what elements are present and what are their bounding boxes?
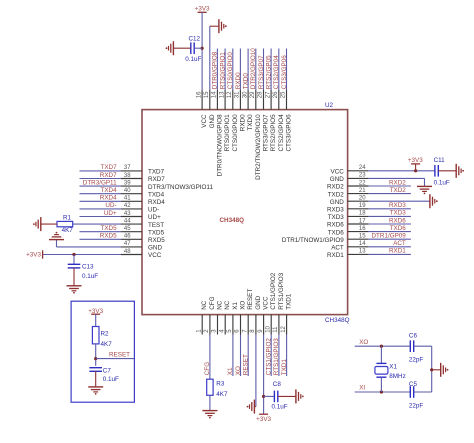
wire net XO (355, 339, 410, 346)
ground (below R3) (202, 411, 217, 416)
svg-text:38: 38 (124, 173, 131, 179)
svg-text:X1: X1 (227, 367, 234, 375)
svg-text:TXD5: TXD5 (100, 225, 117, 232)
svg-text:CH348Q: CH348Q (220, 217, 245, 224)
svg-text:8MHz: 8MHz (389, 373, 405, 380)
svg-text:VCC: VCC (148, 252, 162, 259)
ground (right of C8) (295, 389, 297, 403)
svg-text:0.1uF: 0.1uF (272, 404, 288, 411)
svg-text:NC: NC (217, 300, 224, 310)
svg-text:CTS0/GPIO0: CTS0/GPIO0 (227, 52, 234, 90)
svg-text:4K7: 4K7 (216, 391, 228, 398)
svg-text:15: 15 (204, 91, 210, 98)
wire net DTR1/GP09 (pin 15) (369, 233, 411, 240)
wire net CTS1/GPIO2 (bottom pin 10) (266, 335, 273, 377)
svg-text:U2: U2 (325, 102, 334, 109)
pin 21 TXD2 (right) (328, 188, 369, 198)
svg-text:UD-: UD- (105, 202, 116, 209)
wire RESET net (96, 358, 135, 360)
svg-text:DTR0/GPIO8: DTR0/GPIO8 (212, 51, 219, 89)
power +3V3 (left) (26, 250, 42, 258)
ground (left-facing, bottom) (253, 400, 255, 414)
svg-text:DTR1/TNOW1/GPIO9: DTR1/TNOW1/GPIO9 (282, 237, 344, 244)
svg-text:6: 6 (235, 329, 241, 333)
pin 13 RXD1 (right) (327, 249, 369, 259)
svg-text:UD+: UD+ (148, 214, 161, 221)
svg-text:+3V3: +3V3 (26, 252, 41, 259)
svg-text:10: 10 (265, 325, 271, 332)
capacitor C5 22pF (409, 381, 424, 410)
wire net RXD1 (pin 13) (369, 248, 411, 255)
svg-text:TXD2: TXD2 (328, 191, 345, 198)
svg-text:0.1uF: 0.1uF (82, 273, 98, 280)
wire net RXD3 (pin 19) (369, 202, 411, 209)
svg-text:40: 40 (124, 188, 131, 194)
wire R3 to ground (209, 395, 211, 410)
svg-text:39: 39 (124, 180, 131, 186)
svg-text:X1: X1 (389, 364, 397, 371)
svg-text:13: 13 (219, 91, 225, 98)
svg-text:TXD2: TXD2 (390, 187, 407, 194)
wire net TXD2 (pin 21) (369, 187, 411, 194)
svg-text:XI: XI (359, 385, 365, 392)
pin 22 RXD2 (right) (327, 180, 369, 190)
ground (right of crystal rail) (440, 363, 442, 377)
wire net XI (355, 385, 410, 392)
svg-text:TXD1: TXD1 (286, 293, 293, 310)
wire net XO (bottom pin 6) (235, 335, 242, 377)
svg-text:CFG: CFG (204, 362, 211, 375)
wire net DTR2/GPIO10 (pin 29) (250, 48, 257, 90)
svg-text:25: 25 (281, 91, 287, 98)
wire net RTS0/GPIO1 (pin 13) (219, 49, 226, 91)
power +3V3 (bottom) (256, 414, 271, 423)
pin 26 CTS2/GPIO4 (top) (273, 90, 285, 151)
svg-text:TXD1: TXD1 (281, 359, 288, 376)
junction C12 node (201, 47, 204, 50)
wire right rail (431, 346, 433, 392)
svg-text:19: 19 (359, 203, 366, 209)
svg-text:37: 37 (124, 165, 131, 171)
capacitor C12 (185, 36, 201, 63)
svg-text:R3: R3 (216, 381, 225, 388)
wire C13 to ground (73, 268, 75, 286)
capacitor C6 22pF (409, 333, 424, 364)
svg-text:RXD6: RXD6 (389, 217, 406, 224)
pin 12 TXD1 (bottom) (281, 293, 293, 334)
ground (below C13) (67, 286, 82, 291)
svg-text:48: 48 (124, 249, 131, 255)
pin 48 VCC (left) (121, 249, 162, 259)
svg-text:DTR0/TNOW0/GPIO8: DTR0/TNOW0/GPIO8 (216, 114, 223, 176)
svg-text:UD+: UD+ (104, 210, 117, 217)
wire C12 to ground (174, 47, 191, 49)
wire net TXD5 (pin 45) (80, 225, 122, 232)
svg-text:14: 14 (212, 91, 218, 98)
svg-text:DTR3/GP11: DTR3/GP11 (83, 179, 117, 186)
pin 31 RXD0 (top) (235, 90, 247, 131)
svg-text:1: 1 (196, 329, 202, 333)
svg-text:23: 23 (359, 173, 366, 179)
pin 47 GND (left) (121, 241, 162, 251)
wire net TXD0 (pin 30) (242, 49, 249, 91)
capacitor C11 0.1uF (434, 157, 450, 186)
svg-text:14: 14 (359, 241, 366, 247)
svg-text:TXD6: TXD6 (328, 229, 345, 236)
wire net RXD2 (pin 22) (369, 179, 411, 186)
wire junction to C13 (73, 255, 75, 265)
pin 41 RXD4 (left) (121, 196, 165, 206)
pin 45 TXD5 (left) (121, 226, 165, 236)
pin 27 RTS2/GPIO5 (top) (265, 90, 277, 151)
svg-text:ACT: ACT (331, 245, 344, 252)
pin 20 GND (right) (330, 196, 369, 206)
svg-text:TXD3: TXD3 (390, 210, 407, 217)
svg-text:GND: GND (209, 114, 216, 128)
pin 11 RTS1/GPIO3 (bottom) (273, 272, 285, 334)
svg-text:16: 16 (196, 91, 202, 98)
wire pin20 GND (369, 200, 430, 202)
svg-text:RXD0: RXD0 (239, 114, 246, 131)
svg-text:RESET: RESET (247, 289, 254, 310)
svg-text:4K7: 4K7 (101, 341, 113, 348)
svg-text:UD-: UD- (148, 207, 159, 214)
svg-text:TXD0: TXD0 (242, 73, 249, 90)
pin 43 UD+ (left) (121, 211, 161, 221)
capacitor C13 0.1uF (68, 263, 99, 280)
svg-text:RXD3: RXD3 (327, 207, 344, 214)
resistor R2 4K7 (92, 327, 112, 349)
svg-text:GND: GND (255, 295, 262, 309)
svg-text:CTS2/GPIO4: CTS2/GPIO4 (278, 114, 285, 152)
pin 14 ACT (right) (331, 241, 369, 251)
svg-text:42: 42 (124, 203, 131, 209)
svg-text:RXD4: RXD4 (148, 199, 165, 206)
ground (below pin23 wire) (417, 186, 432, 191)
svg-text:CTS3/GP06: CTS3/GP06 (281, 55, 288, 89)
pin 3 NC (bottom) (212, 300, 224, 334)
svg-text:TXD5: TXD5 (148, 229, 165, 236)
svg-text:TXD3: TXD3 (328, 214, 345, 221)
crystal X1 8MHz (375, 363, 406, 380)
svg-text:RXD7: RXD7 (100, 172, 117, 179)
wire pin24 VCC to C11 (369, 170, 435, 172)
svg-text:RXD2: RXD2 (389, 179, 406, 186)
svg-text:22pF: 22pF (409, 403, 424, 410)
svg-text:DTR2/TNOW2/GPIO10: DTR2/TNOW2/GPIO10 (255, 114, 262, 180)
svg-text:DTR2/GPIO10: DTR2/GPIO10 (250, 48, 257, 89)
pin 46 RXD5 (left) (121, 234, 165, 244)
wire net RXD0 (pin 31) (235, 49, 242, 91)
svg-text:CH348Q: CH348Q (325, 317, 350, 324)
svg-text:RTS0/GPIO1: RTS0/GPIO1 (224, 114, 231, 151)
svg-text:RXD0: RXD0 (235, 72, 242, 89)
svg-text:0.1uF: 0.1uF (103, 376, 119, 383)
svg-text:0.1uF: 0.1uF (434, 179, 450, 186)
svg-text:44: 44 (124, 218, 131, 224)
svg-text:NC: NC (224, 300, 231, 310)
wire net RTS1/GPIO3 (bottom pin 11) (273, 335, 280, 377)
svg-text:16: 16 (359, 226, 366, 232)
ground (right of C11) (455, 164, 457, 178)
svg-text:ACT: ACT (393, 240, 406, 247)
capacitor C8 0.1uF (272, 381, 288, 411)
wire C12 to junction (194, 47, 202, 49)
svg-text:R2: R2 (101, 331, 110, 338)
svg-text:C5: C5 (409, 381, 418, 388)
pin 15 DTR1/TNOW1/GPIO9 (right) (282, 234, 369, 244)
svg-text:4K7: 4K7 (62, 227, 74, 234)
junction +3V3 node (right) (414, 169, 417, 172)
pin 44 TEST (left) (121, 218, 164, 228)
junction C8 node (262, 395, 265, 398)
svg-text:C7: C7 (103, 367, 112, 374)
pin 13 RTS0/GPIO1 (top) (219, 90, 231, 151)
svg-text:RXD3: RXD3 (389, 202, 406, 209)
svg-text:9: 9 (258, 329, 264, 333)
svg-text:22pF: 22pF (409, 357, 424, 364)
ground (top, right-facing) (218, 19, 220, 33)
wire net RXD7 (pin 38) (80, 172, 122, 179)
svg-text:GND: GND (148, 245, 162, 252)
wire net RTS3/GP07 (pin 28) (258, 49, 265, 91)
junction XI/crystal (380, 390, 383, 393)
pin 28 RTS3/GPIO7 (top) (258, 90, 270, 151)
pin 16 VCC (top) (196, 90, 208, 128)
pin 18 TXD3 (right) (328, 211, 369, 221)
wire C5 to rail (414, 391, 432, 393)
svg-text:TXD0: TXD0 (247, 114, 254, 131)
svg-text:47: 47 (124, 241, 131, 247)
svg-text:RTS1/GPIO3: RTS1/GPIO3 (278, 272, 285, 309)
svg-text:C13: C13 (82, 263, 94, 270)
svg-text:RESET: RESET (243, 354, 250, 375)
pin 2 CFG (bottom) (204, 296, 216, 334)
pin 12 CTS0/GPIO0 (top) (227, 90, 239, 151)
wire net ACT (pin 14) (369, 240, 411, 247)
junction rail/ground (430, 368, 433, 371)
pin 42 UD- (left) (121, 203, 159, 213)
svg-text:7: 7 (242, 329, 248, 333)
wire pin44 TEST to R1 (73, 223, 121, 225)
svg-text:31: 31 (235, 91, 241, 98)
wire net TXD4 (pin 40) (80, 187, 122, 194)
wire net X1 (bottom pin 5) (227, 335, 234, 377)
pin 6 XO (bottom) (235, 301, 247, 335)
pin 4 NC (bottom) (219, 300, 231, 334)
svg-text:2: 2 (204, 329, 210, 333)
wire net RXD4 (pin 41) (80, 195, 122, 202)
power +3V3 (RESET box) (88, 308, 103, 315)
wire C7 to ground (95, 371, 97, 386)
svg-text:GND: GND (330, 176, 344, 183)
svg-text:17: 17 (359, 218, 366, 224)
wire +3V3 to pin16 (201, 12, 203, 90)
wire net CTS0/GPIO0 (pin 12) (227, 49, 234, 91)
svg-text:RXD6: RXD6 (327, 222, 344, 229)
wire net TXD3 (pin 18) (369, 210, 411, 217)
svg-text:29: 29 (250, 91, 256, 98)
svg-text:NC: NC (201, 300, 208, 310)
wire net RXD6 (pin 17) (369, 217, 411, 224)
svg-text:C11: C11 (434, 157, 446, 164)
wire net TXD6 (pin 16) (369, 225, 411, 232)
svg-text:15: 15 (359, 234, 366, 240)
svg-text:0.1uF: 0.1uF (185, 56, 201, 63)
ground (RESET box) (88, 387, 103, 392)
wire R1 to ground (41, 223, 57, 225)
wire pin15 GND up (210, 26, 219, 90)
svg-text:TXD6: TXD6 (390, 225, 407, 232)
svg-text:CTS1/GPIO2: CTS1/GPIO2 (270, 272, 277, 310)
pin 38 RXD7 (left) (121, 173, 165, 183)
svg-text:27: 27 (265, 91, 271, 98)
svg-text:GND: GND (330, 199, 344, 206)
wire pin8 GND down (255, 335, 256, 407)
svg-text:C8: C8 (273, 381, 282, 388)
pin 15 GND (top) (204, 90, 216, 128)
pin 37 TXD7 (left) (121, 165, 165, 175)
wire C11 to ground (438, 170, 456, 172)
wire net RXD5 (pin 46) (80, 233, 122, 240)
svg-text:22: 22 (359, 180, 366, 186)
capacitor C7 0.1uF (89, 367, 119, 383)
svg-text:24: 24 (359, 165, 366, 171)
IC U2 CH348Q body (142, 110, 348, 315)
wire C6 to rail (414, 345, 432, 347)
junction XO/crystal (380, 345, 383, 348)
svg-text:8: 8 (250, 329, 256, 333)
pin 29 DTR2/TNOW2/GPIO10 (top) (250, 90, 262, 180)
svg-text:VCC: VCC (331, 169, 345, 176)
pin 24 VCC (right) (331, 165, 369, 175)
ground (inverted, above pin47 wire) (49, 239, 64, 241)
svg-text:TXD7: TXD7 (148, 169, 165, 176)
svg-text:21: 21 (359, 188, 366, 194)
svg-text:XO: XO (240, 301, 247, 310)
pin 9 VCC (bottom) (258, 296, 270, 334)
svg-text:41: 41 (124, 196, 131, 202)
svg-text:X1: X1 (232, 302, 239, 310)
svg-text:12: 12 (227, 91, 233, 98)
svg-text:RXD4: RXD4 (100, 195, 117, 202)
svg-text:C12: C12 (189, 36, 201, 43)
wire C8 to ground (278, 395, 296, 397)
svg-text:CTS2/GP04: CTS2/GP04 (273, 55, 280, 89)
wire net RTS2/GP05 (pin 27) (265, 49, 272, 91)
pin 25 CTS3/GPIO6 (top) (281, 90, 293, 151)
svg-text:11: 11 (273, 326, 279, 333)
wire net DTR3/GP11 (pin 39) (80, 179, 122, 186)
svg-text:RTS3/GPIO7: RTS3/GPIO7 (263, 114, 270, 151)
svg-text:26: 26 (273, 91, 279, 98)
svg-text:+3V3: +3V3 (408, 157, 423, 164)
wire pin47 GND (57, 240, 122, 247)
svg-text:CTS3/GPIO6: CTS3/GPIO6 (286, 114, 293, 152)
wire net TXD1 (bottom pin 12) (281, 335, 288, 377)
resistor R1 4K7 (57, 214, 73, 234)
svg-text:13: 13 (359, 249, 366, 255)
svg-text:XO: XO (359, 339, 368, 346)
wire net CTS3/GP06 (pin 25) (281, 49, 288, 91)
pin 16 TXD6 (right) (328, 226, 369, 236)
svg-text:DTR3/TNOW3/GPIO11: DTR3/TNOW3/GPIO11 (148, 184, 213, 191)
svg-text:TXD4: TXD4 (148, 191, 165, 198)
svg-text:XO: XO (235, 366, 242, 375)
svg-text:VCC: VCC (263, 296, 270, 310)
svg-text:RESET: RESET (109, 352, 130, 359)
svg-text:RXD5: RXD5 (100, 233, 117, 240)
ground (left of R1) (40, 217, 42, 231)
wire net UD- (pin 42) (80, 202, 122, 209)
svg-text:CFG: CFG (209, 296, 216, 309)
wire net UD+ (pin 43) (80, 210, 122, 217)
RESET sub-circuit enclosure box (71, 301, 134, 402)
svg-text:C6: C6 (409, 333, 418, 340)
ground (right-facing, pin20) (429, 194, 431, 208)
wire crystal to XI (380, 377, 382, 392)
svg-text:VCC: VCC (201, 114, 208, 128)
power +3V3 (right) (408, 157, 423, 171)
wire net CTS2/GP04 (pin 26) (273, 49, 280, 91)
wire net DTR0/GPIO8 (pin 14) (212, 49, 219, 91)
wire net RESET (bottom pin 7) (243, 335, 250, 377)
wire rail to ground (432, 369, 441, 371)
svg-text:43: 43 (124, 211, 131, 217)
resistor R3 4K7 (207, 379, 228, 398)
svg-text:TXD7: TXD7 (100, 164, 117, 171)
svg-text:CTS0/GPIO0: CTS0/GPIO0 (232, 114, 239, 152)
pin 1 NC (bottom) (196, 300, 208, 334)
pin 19 RXD3 (right) (327, 203, 369, 213)
pin 30 TXD0 (top) (242, 90, 254, 131)
svg-text:+3V3: +3V3 (195, 6, 210, 13)
pin 39 DTR3/TNOW3/GPIO11 (left) (121, 180, 213, 190)
svg-text:RTS2/GP05: RTS2/GP05 (265, 55, 272, 89)
wire pin9 VCC down (263, 335, 265, 415)
pin 23 GND (right) (330, 173, 369, 183)
wire +3V3 to R2 (95, 314, 97, 326)
power +3V3 (top) (195, 6, 210, 13)
wire net TXD7 (pin 37) (80, 164, 122, 171)
svg-text:18: 18 (359, 211, 366, 217)
pin 5 X1 (bottom) (227, 302, 239, 335)
wire pin23 GND (369, 178, 425, 186)
svg-text:30: 30 (242, 91, 248, 98)
ground (left of C12) (172, 41, 174, 55)
junction C13 node (72, 253, 75, 256)
svg-text:TEST: TEST (148, 222, 164, 229)
pin 40 TXD4 (left) (121, 188, 165, 198)
svg-text:5: 5 (227, 329, 233, 333)
pin 14 DTR0/TNOW0/GPIO8 (top) (212, 90, 224, 176)
svg-text:CTS1/GPIO2: CTS1/GPIO2 (266, 338, 273, 376)
svg-text:+3V3: +3V3 (256, 416, 271, 423)
svg-text:RTS0/GPIO1: RTS0/GPIO1 (219, 52, 226, 89)
wire net CFG (pin 2) (204, 335, 211, 380)
wire R2 to junction (95, 344, 97, 366)
svg-text:RTS1/GPIO3: RTS1/GPIO3 (273, 338, 280, 375)
wire +3V3 rail to pin48 VCC (43, 254, 121, 256)
svg-text:RXD1: RXD1 (327, 252, 344, 259)
svg-text:RXD2: RXD2 (327, 184, 344, 191)
pin 10 CTS1/GPIO2 (bottom) (265, 272, 277, 334)
svg-text:RXD1: RXD1 (389, 248, 406, 255)
pin 8 GND (bottom) (250, 295, 262, 334)
svg-text:R1: R1 (63, 214, 72, 221)
pin 17 RXD6 (right) (327, 218, 369, 228)
svg-text:RXD5: RXD5 (148, 237, 165, 244)
